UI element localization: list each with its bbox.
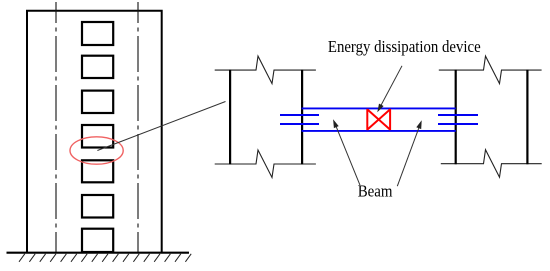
svg-text:Energy dissipation device: Energy dissipation device bbox=[328, 37, 481, 56]
svg-text:Beam: Beam bbox=[358, 182, 393, 201]
